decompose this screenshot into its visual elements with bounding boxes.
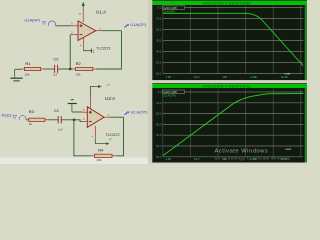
junction node (C1/R4/U2 inverting input): [73, 119, 76, 122]
svg-text:10k: 10k: [96, 158, 101, 162]
wire R4 feedback to junction: [74, 120, 91, 156]
svg-text:1.00: 1.00: [166, 75, 172, 79]
pin 3 stub U2: [83, 108, 88, 112]
svg-text:1k: 1k: [29, 122, 33, 126]
svg-text:R3: R3: [29, 109, 35, 114]
graph 2 x axis labels: [166, 157, 289, 161]
resistor R3: [29, 109, 48, 126]
resistor R1: [21, 61, 43, 77]
schematic background: [0, 0, 149, 164]
svg-text:1uF: 1uF: [58, 127, 63, 131]
op-amp U1:A: [78, 21, 96, 41]
pin 3 stub U1: [70, 22, 78, 26]
wire U1 output: [102, 30, 122, 32]
svg-text:10.0: 10.0: [194, 75, 200, 79]
svg-text:1.00k: 1.00k: [250, 75, 257, 79]
svg-text:-60.2: -60.2: [155, 72, 162, 76]
voltage probe U2:A(OP): [124, 112, 129, 115]
svg-text:-30.2: -30.2: [155, 39, 162, 43]
svg-text:1uF: 1uF: [53, 73, 58, 77]
junction node (C2/R2/feedback): [69, 68, 72, 71]
node U2:A(OP) label: [131, 109, 149, 114]
graph 2 grid verticals: [163, 89, 301, 157]
wire output down to R4: [117, 117, 124, 156]
svg-text:10k: 10k: [24, 72, 29, 76]
svg-text:U2:A(OP): U2:A(OP): [163, 94, 176, 98]
resistor R4: [91, 147, 117, 162]
graph window 1 right edge strip: [303, 5, 307, 80]
svg-text:U1A(HP): U1A(HP): [25, 18, 41, 23]
svg-text:-0.2: -0.2: [157, 6, 162, 10]
TLC2272 part label U2: [106, 133, 120, 141]
svg-text:100: 100: [222, 75, 227, 79]
graph 2 y axis labels: [155, 90, 162, 159]
pin 2 stub U1: [70, 31, 78, 35]
wire C2 to junction: [58, 68, 73, 70]
graph 1 grid verticals: [163, 6, 301, 74]
wire R1 to C2: [44, 68, 55, 70]
generator probe marker (triangle): [42, 22, 46, 25]
graph 1 y axis labels: [155, 6, 162, 76]
node U1A(HP) input label: [25, 18, 41, 23]
U2:A reference label: [105, 96, 116, 101]
svg-text:10.0k: 10.0k: [281, 75, 288, 79]
ground (circuit 2, inverted): [68, 99, 77, 112]
node U1A(OP) label: [130, 22, 146, 27]
svg-text:mod: mod: [285, 147, 291, 151]
bottom edge strip: [148, 163, 307, 165]
generator probe marker (triangle) circuit 2: [13, 115, 17, 119]
svg-text:-60.3: -60.3: [155, 155, 162, 159]
graph window 2 title bar: [152, 83, 307, 88]
svg-text:R3(1): R3(1): [2, 112, 12, 117]
pin 4 V- power flag U2: [92, 126, 110, 145]
svg-text:C2: C2: [53, 57, 59, 62]
pin 1 output stub U2: [104, 113, 110, 117]
svg-text:Go to Settings to activate Win: Go to Settings to activate Windows.: [215, 155, 292, 160]
graph window 2 frame: [148, 84, 307, 163]
capacitor C2: [53, 57, 59, 77]
generator bump symbol circuit 2: [19, 116, 26, 120]
svg-text:-10.2: -10.2: [155, 17, 162, 21]
wire C1 to junction and U2 pin2: [61, 120, 82, 122]
graph 2 legend: [162, 90, 184, 98]
svg-text:-30.3: -30.3: [155, 122, 162, 126]
pin 2 stub U2: [83, 117, 88, 121]
TLC2272 part label U1: [96, 46, 110, 50]
voltage probe U1A(OP): [124, 24, 129, 27]
svg-text:mod: mod: [285, 71, 291, 75]
svg-text:TLC2272: TLC2272: [106, 133, 120, 137]
svg-text:-0.3: -0.3: [157, 90, 162, 94]
pin 1 output stub U1: [96, 26, 102, 30]
ground (circuit 1): [10, 69, 22, 81]
svg-text:U2:A: U2:A: [105, 96, 116, 101]
wire ground to R1: [15, 68, 22, 70]
svg-text:-10.3: -10.3: [155, 101, 162, 105]
graph window 1 frame: [148, 0, 307, 80]
graph window 2 right edge strip: [303, 88, 307, 163]
wire U2 output: [110, 116, 124, 118]
generator bump symbol: [49, 21, 56, 26]
gap between graph windows: [148, 80, 307, 83]
svg-text:FREQUENCY RESPONSE: FREQUENCY RESPONSE: [203, 1, 252, 5]
svg-text:-50.2: -50.2: [155, 61, 162, 65]
wire output down to feedback row: [97, 31, 122, 69]
svg-text:-20.2: -20.2: [155, 28, 162, 32]
svg-text:-40.3: -40.3: [155, 133, 162, 137]
graph window 1 title bar: [152, 0, 307, 5]
svg-text:R2: R2: [76, 61, 82, 66]
svg-text:1.00: 1.00: [166, 157, 172, 161]
resistor R2: [73, 61, 97, 77]
svg-text:-40.2: -40.2: [155, 50, 162, 54]
graph 2 freq cursor label: [285, 147, 291, 151]
wire generator to R3: [26, 119, 29, 121]
wire R3 to C1: [48, 119, 58, 121]
activate windows watermark: [215, 148, 292, 160]
pin 4 V- line and hidden-power symbol: [80, 37, 94, 53]
svg-text:R4: R4: [98, 147, 104, 152]
graph 1 x axis labels: [166, 75, 289, 79]
svg-text:Activate Windows: Activate Windows: [215, 148, 269, 154]
wire generator to U1 pin3: [56, 25, 71, 27]
svg-text:10.0: 10.0: [194, 157, 200, 161]
pin 8 V+ power flag U2: [90, 83, 110, 109]
svg-text:U1:A: U1:A: [96, 9, 107, 14]
pin 8 V+ power line with arrow: [79, 2, 85, 22]
wire pin2 feedback down to junction: [69, 35, 71, 69]
svg-text:+?: +?: [107, 83, 111, 87]
svg-text:10k: 10k: [76, 72, 81, 76]
graph 1 legend: [162, 6, 184, 14]
graph 1 response curve (low-pass): [163, 13, 307, 70]
svg-text:-20.3: -20.3: [155, 112, 162, 116]
svg-text:FREQUENCY RESPONSE: FREQUENCY RESPONSE: [203, 85, 252, 89]
svg-text:U1A(OP): U1A(OP): [130, 22, 146, 27]
graph 1 freq cursor label: [285, 71, 291, 75]
svg-text:U2:A(OP): U2:A(OP): [131, 109, 149, 114]
op-amp U2:A: [87, 107, 104, 128]
graph 2 grid horizontals: [163, 92, 304, 157]
svg-text:+?: +?: [108, 138, 112, 142]
svg-text:R1: R1: [25, 61, 31, 66]
node R3(1) input label: [2, 112, 12, 117]
capacitor C1: [54, 108, 63, 132]
svg-text:TLC2272: TLC2272: [96, 46, 110, 50]
graph 2 response curve (high-pass): [163, 93, 307, 155]
svg-text:C1: C1: [54, 108, 60, 113]
wire ground to U2 pin3: [72, 111, 83, 113]
U1:A reference label: [96, 9, 107, 14]
svg-text:-50.3: -50.3: [155, 144, 162, 148]
graph 1 grid horizontals: [163, 8, 304, 74]
